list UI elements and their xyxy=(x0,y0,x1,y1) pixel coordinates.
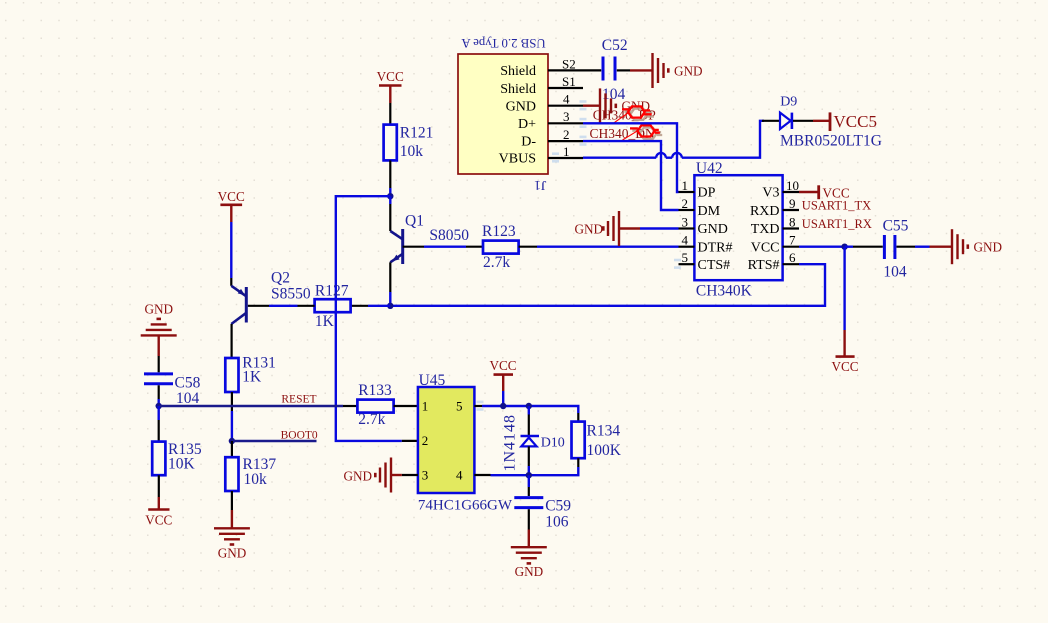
svg-text:DTR#: DTR# xyxy=(698,240,733,255)
junction BOOT0 xyxy=(229,438,235,444)
wire C58 junction down to R135 xyxy=(157,406,159,442)
wire VCC to Q2 emitter xyxy=(230,222,232,286)
resistor R131 xyxy=(225,354,276,392)
wire x=335.8 over R127 body xyxy=(335,297,337,315)
svg-text:GND: GND xyxy=(698,222,728,237)
diff-pair marker (CH340_DN) xyxy=(623,125,663,140)
svg-text:Q1: Q1 xyxy=(405,212,424,229)
power VCC (top, R121) xyxy=(377,69,404,103)
svg-text:J1: J1 xyxy=(534,177,546,192)
ground GND (U42 pin3) xyxy=(575,211,679,246)
svg-text:D+: D+ xyxy=(518,117,536,132)
pin 1 (VBUS) xyxy=(548,144,583,159)
svg-text:DP: DP xyxy=(698,186,716,201)
pin 2 (DM) xyxy=(679,196,695,211)
svg-text:2: 2 xyxy=(682,196,689,211)
svg-text:S2: S2 xyxy=(562,56,576,71)
wire D+ net (USB pin3 to U42 pin1) xyxy=(583,123,679,192)
ground GND (R137) xyxy=(214,491,250,560)
capacitor C55 xyxy=(845,218,930,281)
svg-text:GND: GND xyxy=(515,564,544,579)
diff-pair marker (CH340_DP) xyxy=(614,106,654,122)
svg-text:VCC: VCC xyxy=(751,240,780,255)
svg-text:Q2: Q2 xyxy=(271,270,290,287)
junction D10 top xyxy=(526,403,532,409)
pin 3 (GND) xyxy=(679,214,695,229)
diode D10 1N4148 xyxy=(502,406,565,475)
junction D10 bottom / C59 xyxy=(526,472,532,478)
svg-text:R121: R121 xyxy=(400,124,434,141)
wire D- net (USB pin2 to U42 pin2) xyxy=(583,141,679,210)
svg-text:RESET: RESET xyxy=(281,393,316,405)
svg-text:U42: U42 xyxy=(696,160,723,177)
svg-text:R134: R134 xyxy=(587,423,621,440)
ground GND (C59) xyxy=(511,530,547,580)
resistor R133 xyxy=(357,382,393,428)
pin S2 (Shield) xyxy=(548,56,583,71)
resistor R134 xyxy=(572,413,622,467)
wire BOOT0 stub xyxy=(232,440,317,442)
svg-text:S8550: S8550 xyxy=(271,285,311,302)
pin 4 (GND) xyxy=(548,91,583,106)
svg-text:DM: DM xyxy=(698,204,721,219)
wire R131 to BOOT0 junction xyxy=(231,392,233,441)
svg-text:GND: GND xyxy=(506,99,536,114)
wire RTS# net (U42 pin6 to Q1 emitter/R127) xyxy=(390,264,825,306)
transistor Q1 xyxy=(390,196,469,306)
power VCC (U42 pin10) xyxy=(799,185,850,200)
ground GND (U45 pin3) xyxy=(344,458,402,493)
svg-text:1N4148: 1N4148 xyxy=(502,414,519,472)
svg-text:GND: GND xyxy=(145,301,174,316)
pin 8 (TXD) xyxy=(783,214,799,229)
svg-text:1: 1 xyxy=(682,178,689,193)
svg-text:104: 104 xyxy=(176,390,200,407)
svg-text:U45: U45 xyxy=(419,372,446,389)
wire R123 to U42 pin4 (DTR#) xyxy=(519,246,679,248)
junction below R121 xyxy=(387,193,393,199)
svg-text:2.7k: 2.7k xyxy=(358,411,385,428)
svg-text:CH340K: CH340K xyxy=(696,282,753,299)
wire junction down to VCC xyxy=(843,247,845,330)
wire R127 to Q2 base xyxy=(248,305,315,307)
svg-text:6: 6 xyxy=(789,250,796,265)
svg-text:3: 3 xyxy=(422,467,429,482)
capacitor C58 xyxy=(144,356,201,407)
power VCC (below R135) xyxy=(145,475,172,527)
capacitor C52 xyxy=(583,37,630,103)
capacitor C59 xyxy=(514,475,571,530)
wire Q2 collector to R131 xyxy=(231,324,233,358)
diode D9 xyxy=(762,95,882,150)
svg-text:GND: GND xyxy=(575,222,604,237)
svg-text:C55: C55 xyxy=(883,218,909,235)
svg-text:R123: R123 xyxy=(482,223,516,240)
svg-text:VCC5: VCC5 xyxy=(834,112,877,131)
wire VBUS net (USB pin1 to D9, with hop-overs) xyxy=(583,121,764,158)
junction VCC / pin5 xyxy=(500,403,506,409)
resistor R127 xyxy=(315,283,351,330)
pin 5 lead (U45) xyxy=(474,405,482,407)
wire junction to R127 xyxy=(351,305,391,307)
pin 10 (V3) xyxy=(783,178,799,193)
svg-text:USB 2.0 Type A: USB 2.0 Type A xyxy=(461,36,546,50)
pin 5 (CTS#) xyxy=(679,250,695,265)
svg-text:MBR0520LT1G: MBR0520LT1G xyxy=(780,133,882,150)
resistor R135 xyxy=(152,441,202,475)
svg-text:D10: D10 xyxy=(541,436,565,451)
svg-text:2: 2 xyxy=(422,433,429,448)
svg-text:TXD: TXD xyxy=(751,222,780,237)
svg-text:74HC1G66GW: 74HC1G66GW xyxy=(418,497,513,513)
svg-text:S8050: S8050 xyxy=(429,227,469,244)
svg-text:1K: 1K xyxy=(315,313,335,330)
svg-text:10: 10 xyxy=(786,178,799,193)
transistor Q2 xyxy=(231,270,311,324)
resistor R121 xyxy=(384,124,434,160)
svg-text:104: 104 xyxy=(883,264,907,281)
wire BOOT0 junction to R137 xyxy=(231,441,233,457)
svg-text:1K: 1K xyxy=(242,368,262,385)
svg-text:USART1_TX: USART1_TX xyxy=(802,198,871,212)
pin S1 (Shield) xyxy=(548,74,583,89)
junction U42 pin7 / C55 / VCC xyxy=(841,244,847,250)
svg-text:2.7k: 2.7k xyxy=(483,254,510,271)
svg-text:10k: 10k xyxy=(244,471,268,488)
svg-text:GND: GND xyxy=(974,240,1003,255)
svg-text:4: 4 xyxy=(456,467,463,482)
pin 3 (D+) xyxy=(548,109,583,124)
svg-text:D9: D9 xyxy=(780,95,797,110)
pin 2 (D-) xyxy=(548,127,583,142)
resistor R137 xyxy=(225,456,276,491)
op-amp U42 CH340K xyxy=(694,160,782,299)
svg-text:R127: R127 xyxy=(315,283,349,300)
svg-text:GND: GND xyxy=(344,468,373,483)
power VCC (below C55 junction) xyxy=(831,330,858,374)
pin 4 lead (U45) xyxy=(474,474,490,476)
wire U42 pin7 to C55 junction xyxy=(799,245,845,247)
power VCC5 xyxy=(813,112,877,131)
wire U45 pin5 net xyxy=(482,406,578,413)
svg-text:VBUS: VBUS xyxy=(499,152,536,167)
svg-text:C52: C52 xyxy=(602,37,628,54)
svg-text:C59: C59 xyxy=(545,497,571,514)
svg-text:V3: V3 xyxy=(762,186,779,201)
svg-text:GND: GND xyxy=(674,64,703,79)
pin 4 (DTR#) xyxy=(679,233,695,248)
pin 9 (RXD) xyxy=(783,196,799,211)
svg-text:3: 3 xyxy=(563,109,570,124)
svg-text:VCC: VCC xyxy=(831,359,858,374)
wire U45 pin2 lead xyxy=(402,440,418,442)
pin 6 (RTS#) xyxy=(783,250,799,265)
power VCC (Q2 emitter) xyxy=(218,189,245,222)
svg-text:100K: 100K xyxy=(587,442,622,459)
svg-text:106: 106 xyxy=(545,513,569,530)
svg-text:4: 4 xyxy=(682,233,689,248)
pin 3 lead (U45) xyxy=(402,474,418,476)
op-amp U45 74HC1G66GW xyxy=(418,372,513,513)
svg-text:CTS#: CTS# xyxy=(698,258,731,273)
junction C58 / RESET xyxy=(156,403,162,409)
svg-text:Shield: Shield xyxy=(500,82,536,97)
svg-text:RTS#: RTS# xyxy=(748,258,780,273)
ground GND (C55) xyxy=(930,229,1003,264)
svg-text:1: 1 xyxy=(422,398,429,413)
svg-text:S1: S1 xyxy=(562,74,576,89)
svg-text:Shield: Shield xyxy=(500,64,536,79)
resistor R123 xyxy=(482,223,519,271)
svg-text:5: 5 xyxy=(456,398,463,413)
wire Q1 base to R123 xyxy=(403,246,483,248)
svg-text:VCC: VCC xyxy=(489,358,516,373)
wire R133 to U45 pin1 xyxy=(394,405,418,407)
svg-text:5: 5 xyxy=(682,250,689,265)
svg-text:VCC: VCC xyxy=(145,513,172,528)
ground GND (top left, inverted) xyxy=(141,301,177,356)
pin 1 (DP) xyxy=(679,178,695,193)
wire RESET net xyxy=(159,405,343,407)
ground GND (USB pin 4) xyxy=(583,88,650,123)
svg-text:4: 4 xyxy=(563,91,570,106)
wire RESET to R133 xyxy=(343,405,357,407)
svg-text:8: 8 xyxy=(789,214,796,229)
svg-text:USART1_RX: USART1_RX xyxy=(802,217,872,231)
svg-text:10K: 10K xyxy=(168,456,196,473)
svg-text:GND: GND xyxy=(218,545,247,560)
svg-text:RXD: RXD xyxy=(750,204,780,219)
svg-text:VCC: VCC xyxy=(377,69,404,84)
USB connector J1 xyxy=(458,36,548,192)
power VCC (U45 pin5) xyxy=(489,358,516,406)
svg-text:BOOT0: BOOT0 xyxy=(281,429,318,441)
svg-text:1: 1 xyxy=(563,144,570,159)
wire VCC to R121 xyxy=(389,103,391,125)
wire junction to U45 pin2 (via x=335.8) xyxy=(336,196,402,441)
pin 7 (VCC) xyxy=(783,233,799,248)
svg-text:9: 9 xyxy=(789,196,796,211)
svg-text:R133: R133 xyxy=(358,382,392,399)
ground GND (C52) xyxy=(630,53,703,88)
svg-text:7: 7 xyxy=(789,233,796,248)
wire R121 to junction xyxy=(389,160,391,196)
svg-text:VCC: VCC xyxy=(218,189,245,204)
svg-text:3: 3 xyxy=(682,214,689,229)
svg-text:2: 2 xyxy=(563,127,570,142)
wire R134 bottom to pin4 row xyxy=(491,467,579,475)
svg-text:D-: D- xyxy=(521,135,536,150)
svg-text:10k: 10k xyxy=(400,143,424,160)
junction Q1 emitter / RTS# xyxy=(387,303,393,309)
wire endpoint ghost marks xyxy=(477,100,682,411)
